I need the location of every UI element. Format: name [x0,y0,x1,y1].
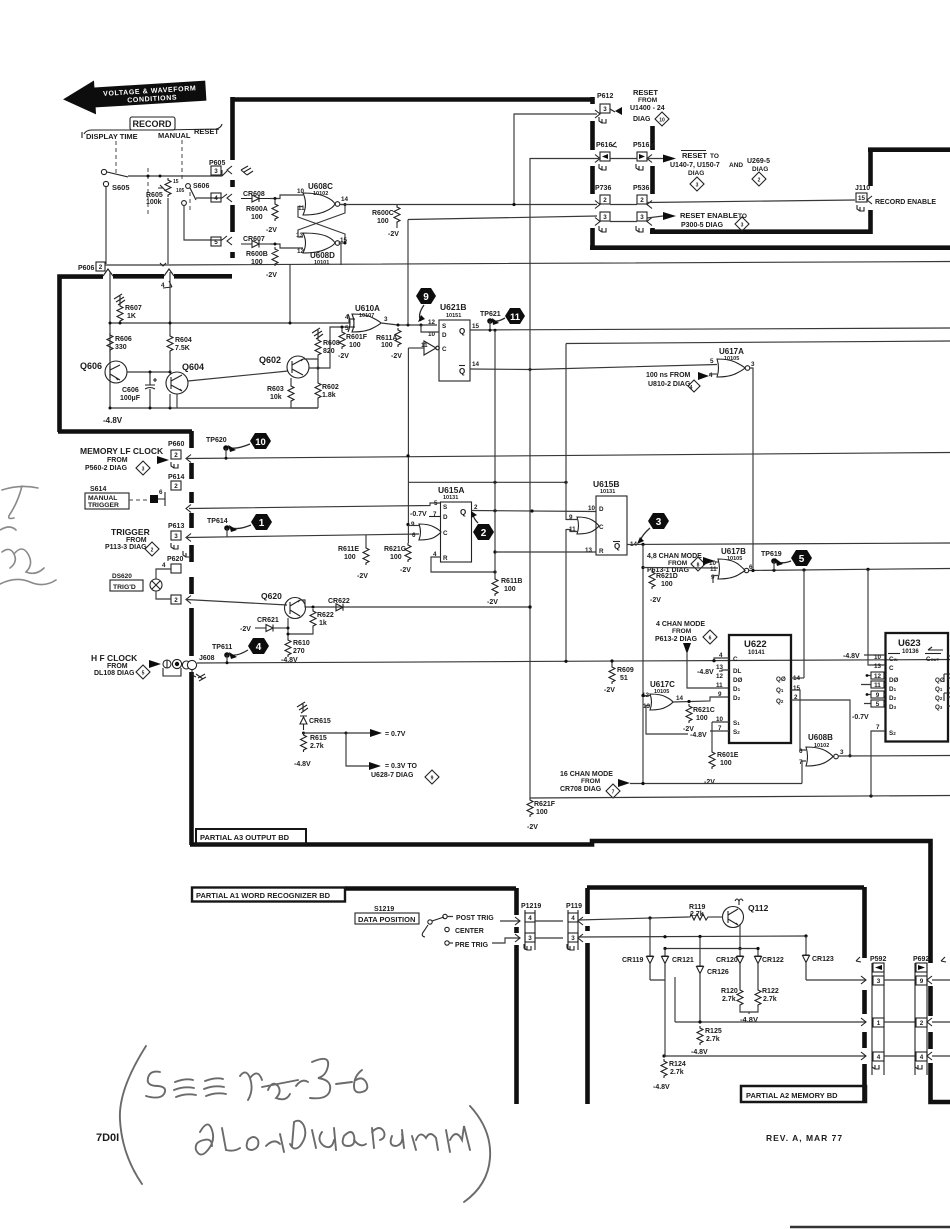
svg-text:3: 3 [174,533,178,540]
transistor Q602 [259,355,309,378]
wire from S606 lower down to pin5 row [184,206,222,240]
brace under record [84,124,222,134]
svg-text:RECORD: RECORD [132,119,172,129]
svg-text:10151: 10151 [446,313,461,319]
svg-text:10: 10 [874,654,882,661]
svg-text:MEMORY LF CLOCK: MEMORY LF CLOCK [80,446,164,456]
svg-text:U608C: U608C [308,182,333,191]
svg-text:AND: AND [729,162,743,169]
svg-text:R611A: R611A [376,335,397,342]
U617C out to U622 D2 [673,697,729,702]
U622 S1/S2 stubs [710,722,729,731]
svg-text:-4.8V: -4.8V [103,416,123,425]
resistor R606 [107,333,132,352]
clock inverter into U621B [408,341,439,355]
A2 top edge [587,885,864,890]
TP611 testpoint [212,644,232,663]
emitter row wire y948 [665,948,758,950]
svg-text:9: 9 [423,292,429,303]
svg-text:11: 11 [510,312,521,323]
U617C pin12 wire from x643 vertical [643,695,650,697]
svg-text:S: S [442,323,446,330]
svg-text:2: 2 [174,597,178,604]
svg-text:-4.8V: -4.8V [294,761,311,768]
capacitor C606 [120,372,157,408]
svg-text:105: 105 [176,188,185,194]
A1 word recognizer board top edge [345,886,516,891]
A3 board bottom-left edge at P606 [60,276,233,432]
svg-text:TP621: TP621 [480,311,501,318]
svg-text:U615A: U615A [438,485,464,495]
svg-text:S1: S1 [733,720,740,727]
svg-text:4: 4 [571,915,575,922]
connector P692 [913,956,946,1075]
svg-text:CR122: CR122 [762,957,784,964]
svg-text:15: 15 [173,179,179,185]
svg-text:P692: P692 [913,956,929,963]
svg-text:R119: R119 [689,904,705,911]
wire P620 to Q620 base [186,600,287,606]
DS620 TRIG'D lamp [110,562,171,599]
svg-text:51: 51 [620,675,628,682]
NOR gate U617A [709,347,755,379]
wire S606 to P605 pin4 [196,197,222,199]
hexagon 4 [229,638,269,659]
svg-text:7D0I: 7D0I [96,1132,119,1144]
TP619 testpoint [761,551,782,570]
svg-text:2.7k: 2.7k [670,1069,684,1076]
svg-text:3: 3 [877,978,881,985]
svg-text:-2V: -2V [338,353,349,360]
hexagon 11 [492,308,525,325]
svg-text:CR120: CR120 [716,957,738,964]
vertical from R605 bottom down [167,198,169,264]
svg-text:S614: S614 [90,486,106,493]
vertical x566 from y343 down to HF bus [565,344,567,662]
PRE TRIG wire to P1219-3 [449,938,520,943]
HF clock bus wire [197,660,950,664]
svg-text:QØ: QØ [776,676,786,683]
svg-text:P560-2 DIAG: P560-2 DIAG [85,465,128,472]
OR gate (U615A clock input) [408,521,441,540]
svg-text:100: 100 [349,342,361,349]
svg-text:P113-3 DIAG: P113-3 DIAG [105,544,147,551]
svg-text:P1219: P1219 [521,903,541,910]
svg-text:11: 11 [874,682,881,689]
svg-text:2: 2 [151,548,154,554]
voltage & waveform conditions arrow [62,74,207,117]
U617B pin11 wire from x643 [643,567,718,570]
wire row y1022 to P592-1 [675,977,866,1022]
handwritten BLOCK scrawl [196,1124,213,1154]
svg-text:R622: R622 [317,612,334,619]
RS cross-coupling wires [298,205,345,244]
svg-text:R125: R125 [705,1028,722,1035]
U617B output wire (TP619 net) [749,569,950,571]
svg-text:POST TRIG: POST TRIG [456,915,494,922]
base wire Q606 to Q604 [127,371,170,373]
resistor R604 [167,272,192,372]
svg-text:3: 3 [656,517,662,528]
memory board top-right: inner connector edge x652 [650,126,655,233]
svg-text:R615: R615 [310,735,327,742]
svg-text:R609: R609 [617,667,634,674]
wire Q602 area to U610A pin5 [318,327,355,368]
TRIGGER label [105,527,159,556]
vertical x407 from RESET-ENABLE row down to U610A out [407,220,409,326]
svg-text:-4.8V: -4.8V [740,1015,758,1024]
handwritten PAGE scrawl [240,1072,262,1100]
svg-text:15: 15 [472,323,480,330]
U622 Q0 wire to x804 vertical [791,677,804,679]
svg-text:100: 100 [720,760,732,767]
svg-text:3: 3 [214,168,218,175]
NOR gate U617B [709,547,753,581]
svg-text:S605: S605 [112,183,130,192]
wire row y1056 to P592-4 [664,1055,866,1057]
svg-text:P300-5 DIAG: P300-5 DIAG [681,222,724,229]
dashed box around R605/S606 [148,168,190,214]
dashed drop from DISPLAY TIME [115,141,117,176]
svg-text:REV. A, MAR 77: REV. A, MAR 77 [766,1133,843,1143]
U615A Q out wire to U615B D [472,511,597,512]
svg-text:PARTIAL A2 MEMORY BD: PARTIAL A2 MEMORY BD [746,1091,838,1100]
svg-text:U1400 - 24: U1400 - 24 [630,105,665,112]
svg-text:C: C [442,346,447,353]
U622 Q2 wire down to U608B out [791,700,850,756]
Q112 emitter down [739,925,741,949]
svg-text:R603: R603 [267,386,284,393]
wires between P736/P536 [610,205,637,222]
svg-text:RECORD ENABLE: RECORD ENABLE [875,199,936,206]
svg-text:-2V: -2V [650,597,661,604]
svg-text:-4.8V: -4.8V [697,669,714,676]
svg-text:12: 12 [874,673,882,680]
svg-text:4: 4 [877,1054,881,1061]
svg-text:TP611: TP611 [212,644,232,651]
vertical x643 from Qbar wire down to 16chan [642,544,644,783]
connector P1219 [515,903,541,950]
A3 left edge horizontal above MEMORY LF CLOCK [58,429,192,434]
diode CR622 [328,598,350,611]
XOR gate U610A [345,304,388,332]
U608D out down to long bus y265 [340,243,341,265]
transistor Q606 [80,352,127,383]
U608B pin7 from 16chan vertical [802,761,806,784]
connector P660 [168,441,191,468]
svg-text:Q602: Q602 [259,355,281,365]
svg-text:C: C [733,656,738,663]
handwritten open paren [120,1046,146,1184]
svg-text:R600C: R600C [372,210,394,217]
A3 right bottom thick line [590,245,950,250]
svg-text:R600A: R600A [246,206,268,213]
svg-text:R621F: R621F [534,801,556,808]
svg-text:9: 9 [431,776,434,782]
hexagon 9 [416,288,436,322]
svg-text:1K: 1K [127,313,136,320]
svg-text:D: D [442,332,447,339]
svg-text:P536: P536 [633,185,649,192]
svg-text:100: 100 [504,586,516,593]
svg-text:CR621: CR621 [257,617,279,624]
svg-text:D1: D1 [733,686,741,693]
svg-text:4: 4 [690,385,693,391]
A1 right vertical [514,888,519,1104]
svg-text:6: 6 [799,748,803,755]
svg-text:TP619: TP619 [761,551,782,558]
svg-text:D2: D2 [889,695,897,702]
svg-text:U610A: U610A [355,304,380,313]
connector P616 [595,142,617,170]
svg-text:5: 5 [214,239,218,246]
svg-text:CR126: CR126 [707,969,729,976]
svg-text:RESET: RESET [194,127,219,136]
diode CR126 [697,937,729,1023]
hexagon 3 [637,513,669,544]
Q620 collector wire right [300,600,530,607]
svg-text:-2V: -2V [266,227,277,234]
handwritten 3-6 [310,1059,330,1099]
svg-text:7: 7 [612,790,615,796]
A2 right vertical [862,887,867,1101]
svg-text:Q2: Q2 [935,695,943,702]
A3 bottom edge [190,841,950,1102]
svg-text:4: 4 [920,1054,924,1061]
U622 C clock from HF bus [714,658,729,661]
transistor Q604 [166,362,204,394]
wire P536-3 to RESET ENABLE arrow [647,216,663,218]
svg-text:Q: Q [459,327,465,336]
svg-text:U621B: U621B [440,302,466,312]
wire P119-3 row [578,936,806,937]
svg-text:13: 13 [643,703,651,710]
vertical x495 from U621B Q down [494,330,496,577]
svg-text:2: 2 [481,528,487,539]
A3 board left edge upper vertical [230,97,235,258]
svg-text:P119: P119 [566,903,582,910]
svg-text:9: 9 [920,978,924,985]
svg-text:P736: P736 [595,185,611,192]
svg-text:Q112: Q112 [748,903,769,913]
RECORD label box [130,117,175,130]
svg-text:P613: P613 [168,523,184,530]
switch S1219 DATA POSITION [355,906,494,949]
wire bus down from y265 at x290 [289,265,291,324]
svg-text:820: 820 [323,348,335,355]
svg-text:FROM: FROM [581,778,600,785]
svg-text:DISPLAY TIME: DISPLAY TIME [86,132,138,141]
svg-text:2.7k: 2.7k [706,1036,720,1043]
TRIGGER wire to U615A OR gate [186,534,419,538]
svg-text:CIN: CIN [889,656,898,663]
U623 S2 from y797 bus [871,731,885,796]
S614 MANUAL TRIGGER [85,486,165,509]
wire P119-4 to R119/Q112 [578,917,688,920]
svg-text:C: C [443,530,448,537]
svg-text:3: 3 [571,935,575,942]
svg-text:1: 1 [259,518,265,529]
svg-text:Q: Q [460,508,466,517]
svg-text:2: 2 [99,264,103,271]
diode CR608 [241,191,270,202]
svg-text:D: D [443,514,448,521]
svg-text:U140-7, U150-7: U140-7, U150-7 [670,162,720,169]
U621B Qbar wire to U617A pin5 [470,365,717,370]
svg-text:9: 9 [411,521,415,528]
wire P536-2 to J110 (RECORD ENABLE) [647,200,855,203]
svg-text:2: 2 [640,197,644,204]
connector P516 [633,142,652,170]
svg-text:U810-2 DIAG: U810-2 DIAG [648,381,691,388]
U621B Q long wire right [470,328,950,330]
svg-text:3: 3 [840,749,844,756]
resistor R621C [683,704,715,733]
RESET ENABLE TO P300-5 label [680,211,749,231]
hexagon 2 [471,511,494,540]
resistor R621G [384,543,411,574]
U617A out down to TP619 line [750,368,753,571]
svg-text:3: 3 [741,223,744,229]
svg-text:10: 10 [659,118,665,124]
connector P614 [159,474,191,513]
svg-text:R611B: R611B [501,578,522,585]
diode CR122 [755,947,784,988]
svg-text:15: 15 [793,685,801,692]
resistor R602 [303,357,339,408]
transistor Q112 [711,899,769,928]
CR123 bottom to P592-3 row [806,979,866,981]
svg-text:9: 9 [876,692,880,699]
D input wire jog [421,325,439,332]
svg-text:100: 100 [536,809,548,816]
transistor Q620 [261,591,306,619]
Q604 emitter to bottom rail / Q602 base wire [188,371,288,381]
svg-text:RESET ENABLE: RESET ENABLE [680,211,738,220]
svg-text:3: 3 [640,214,644,221]
svg-text:-2V: -2V [357,573,368,580]
svg-text:4: 4 [528,915,532,922]
left margin scribble 1 [2,486,38,519]
svg-text:16 CHAN MODE: 16 CHAN MODE [560,771,613,778]
svg-text:5: 5 [434,500,438,507]
svg-text:100: 100 [251,214,263,221]
svg-text:U608B: U608B [808,733,833,742]
svg-text:7: 7 [876,724,880,731]
svg-text:12: 12 [297,248,305,255]
svg-text:TP614: TP614 [207,518,228,525]
svg-text:14: 14 [472,361,480,368]
svg-text:-4.8V: -4.8V [691,1049,708,1056]
svg-text:2: 2 [603,197,607,204]
svg-text:-2V: -2V [487,599,498,606]
potentiometer R605 [146,178,185,206]
svg-text:Q606: Q606 [80,361,102,371]
svg-text:R122: R122 [762,988,779,995]
svg-text:3: 3 [528,935,532,942]
svg-text:4: 4 [256,642,262,653]
svg-text:S2: S2 [733,729,740,736]
svg-text:100: 100 [381,342,393,349]
PARTIAL A2 MEMORY BD label [741,1086,866,1102]
NOR gate U608C [297,182,349,215]
svg-text:11: 11 [710,566,717,573]
dashed drop from MANUAL [181,140,183,182]
svg-text:2.7k: 2.7k [763,996,777,1003]
A3 output board: top edge [232,97,592,102]
svg-text:MANUAL: MANUAL [88,495,117,502]
svg-text:S2: S2 [889,730,896,737]
wire y482 row (manual trigger net) [408,481,566,483]
wires between P592/P692 and out right [884,980,915,1056]
svg-text:DØ: DØ [733,677,743,684]
16 CHAN MODE label [560,771,630,798]
diode CR123 [803,936,834,980]
svg-text:J110: J110 [855,185,870,192]
handwritten close paren [464,1106,490,1202]
svg-text:D: D [599,506,604,513]
P606 connector [78,262,174,289]
wire y216 to P736 pin3 [408,216,597,220]
wire P614 row to U615A S pin [189,503,441,509]
memory board top-right bottom edge [650,229,870,234]
svg-text:CR615: CR615 [309,718,331,725]
svg-text:12: 12 [716,673,724,680]
svg-text:Q: Q [459,367,465,376]
svg-text:-2V: -2V [266,272,277,279]
bottom -4.8V rail [110,407,318,409]
svg-text:100: 100 [390,554,402,561]
svg-text:P592: P592 [870,956,886,963]
svg-text:-2V: -2V [391,353,402,360]
resistor R601E [704,722,739,786]
svg-text:QØ: QØ [935,677,945,684]
svg-text:Q620: Q620 [261,591,282,601]
svg-text:DØ: DØ [889,677,899,684]
handwritten DIAGRAM scrawl [290,1121,305,1149]
svg-text:330: 330 [115,344,127,351]
switch S605 [101,169,129,192]
wire P616 left down (to U615B C input chain) [530,159,600,371]
svg-text:4: 4 [345,314,349,321]
svg-text:= 0.3V TO: = 0.3V TO [385,763,418,770]
svg-text:CR119: CR119 [622,957,644,964]
svg-text:Q1: Q1 [776,687,784,694]
svg-text:-2V: -2V [704,779,715,786]
resistor R124 [653,1059,686,1091]
svg-text:-4.8V: -4.8V [843,653,860,660]
svg-text:CR622: CR622 [328,598,350,605]
connector P620 [167,551,191,604]
connector P736 [595,185,611,232]
R120/R122 bottoms joined to -4.8V [740,1007,758,1014]
ground squiggle at pin3 [241,166,253,175]
svg-text:100 ns FROM: 100 ns FROM [646,372,691,379]
resistor R611B [487,577,522,606]
svg-text:-0.7V: -0.7V [410,511,427,518]
resistor R603 [267,378,318,408]
svg-text:4: 4 [214,195,218,202]
svg-text:14: 14 [676,695,684,702]
long bus y797 [530,796,950,799]
svg-text:PARTIAL A3 OUTPUT BD: PARTIAL A3 OUTPUT BD [200,833,290,842]
svg-text:DIAG: DIAG [633,116,651,123]
svg-text:R621D: R621D [656,573,678,580]
ground + resistor R608 [312,328,340,357]
LF clock bus wire [186,453,950,459]
svg-text:S1219: S1219 [374,906,394,913]
svg-text:TRIG'D: TRIG'D [113,584,136,591]
